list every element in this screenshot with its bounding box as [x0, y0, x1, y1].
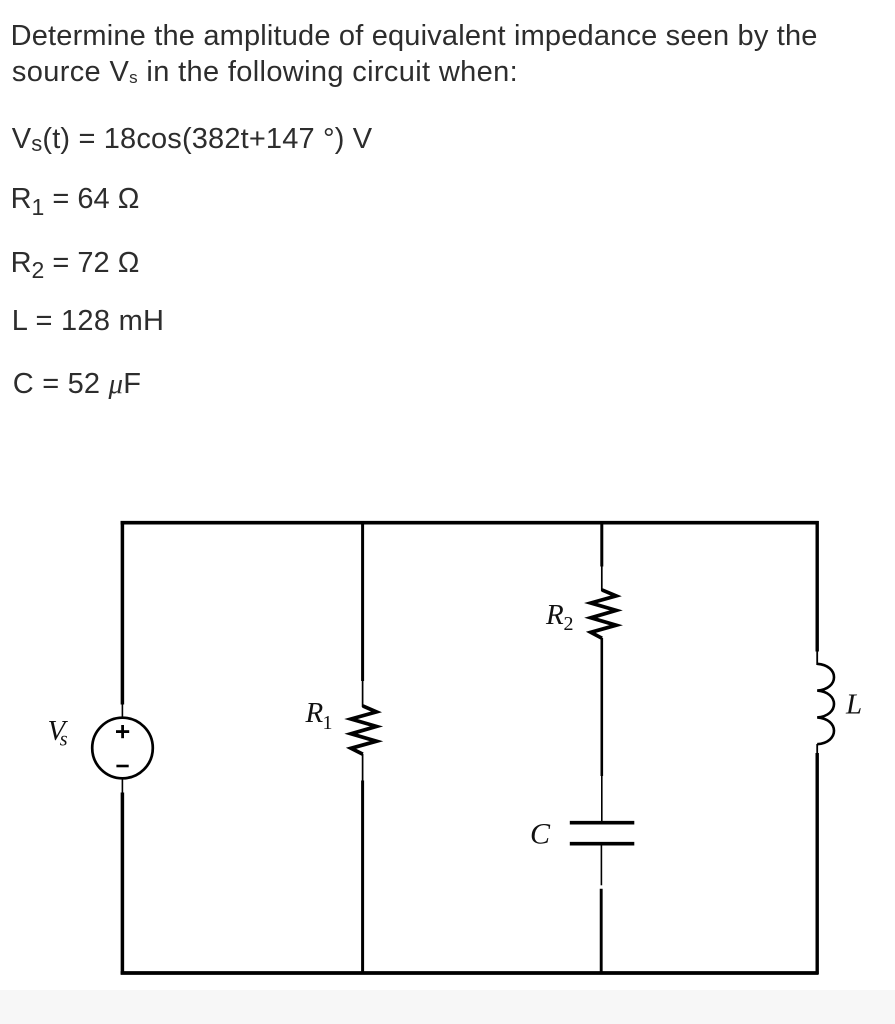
- resistor R1: [351, 706, 377, 754]
- wire right branch lower: [816, 744, 818, 974]
- svg-text:s: s: [60, 728, 68, 750]
- wire R2 branch upper: [600, 521, 603, 591]
- wire left branch upper: [121, 521, 125, 719]
- wire R2 to C: [600, 638, 603, 822]
- wire C to bottom rail: [600, 846, 602, 975]
- wire bottom rail: [121, 971, 819, 975]
- svg-text:C: C: [530, 818, 551, 851]
- wire top rail: [121, 521, 819, 525]
- svg-text:R: R: [305, 697, 324, 729]
- wire right branch upper: [816, 521, 819, 665]
- capacitor C: [570, 823, 635, 844]
- source Vs: [92, 718, 153, 779]
- wire R1 branch upper: [361, 521, 364, 707]
- label R1: [305, 697, 333, 734]
- resistor R2: [591, 590, 616, 638]
- label Vs: [48, 715, 69, 751]
- wire R1 branch lower: [362, 754, 364, 974]
- svg-text:1: 1: [323, 712, 333, 734]
- svg-text:L: L: [845, 689, 862, 721]
- inductor L: [817, 664, 834, 744]
- wire left branch lower: [121, 778, 123, 974]
- svg-text:R: R: [545, 599, 564, 631]
- label R2: [545, 599, 574, 635]
- svg-text:2: 2: [564, 613, 574, 635]
